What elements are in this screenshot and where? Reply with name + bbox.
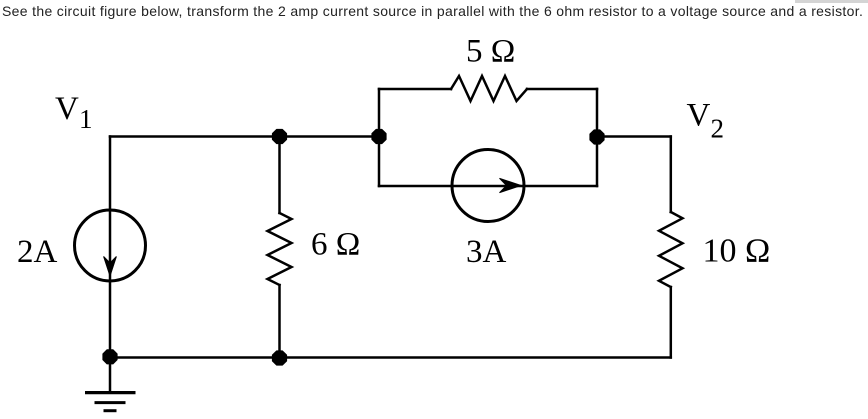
faint scrollbar/gray strip top right [795, 0, 868, 3]
wire: left vertical through 2A source [109, 137, 112, 358]
wire: top box top-left segment [379, 88, 451, 91]
wire: lower branch left vertical [378, 137, 381, 187]
svg-text:6 Ω: 6 Ω [311, 227, 360, 263]
wire: top box right vertical [596, 89, 599, 137]
current source U2 3A circle [452, 150, 524, 222]
node dot: left top junction at 6ohm [273, 130, 287, 144]
node dot: junction at box left [372, 130, 386, 144]
wire: top box left vertical [378, 89, 381, 137]
svg-text:2A: 2A [17, 234, 58, 270]
svg-text:2: 2 [711, 113, 725, 143]
ground stub wire [109, 358, 112, 393]
arrow of 2A source pointing down [104, 257, 117, 277]
resistor R2 6ohm lower lead [278, 285, 281, 358]
wire: top box top-right segment [527, 88, 597, 91]
node dot: bottom junction at 6ohm [273, 351, 287, 365]
ground symbol [85, 393, 136, 411]
svg-text:3A: 3A [466, 234, 507, 270]
wire: lower branch horizontal through 3A source [379, 185, 597, 188]
current source U1 2A circle [75, 210, 146, 281]
resistor R1 5ohm zigzag [451, 76, 527, 101]
resistor R3 10ohm zigzag [659, 212, 683, 287]
resistor R2 6ohm zigzag [268, 213, 292, 285]
svg-text:V: V [55, 91, 79, 127]
wire: top node V1 horizontal [110, 135, 379, 138]
svg-text:5 Ω: 5 Ω [466, 34, 515, 70]
resistor R3 10ohm upper lead [670, 137, 673, 213]
svg-text:V: V [687, 98, 711, 134]
wire: top node between box and V2 [597, 135, 671, 138]
wire: bottom rail [110, 356, 671, 359]
arrow of 3A source pointing right [500, 178, 522, 192]
node dot: bottom left ground node [103, 350, 117, 364]
node dot: junction at box right [590, 130, 604, 144]
resistor R3 10ohm lower lead [670, 287, 673, 358]
resistor R2 6ohm upper lead [278, 137, 281, 214]
svg-text:1: 1 [79, 104, 93, 134]
svg-text:10 Ω: 10 Ω [703, 233, 771, 270]
wire: lower branch right vertical [596, 137, 599, 187]
